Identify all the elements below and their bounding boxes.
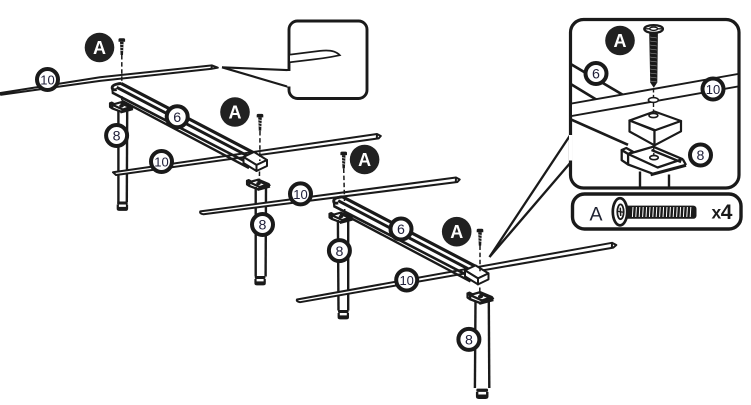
part label 8 #1 bbox=[106, 125, 127, 146]
dashed line, washer and holes in inset bbox=[648, 89, 658, 156]
svg-text:8: 8 bbox=[697, 148, 705, 164]
inset wedge pointer bbox=[490, 131, 575, 257]
svg-text:8: 8 bbox=[335, 244, 343, 260]
screw A2 with dashed line bbox=[257, 114, 264, 181]
part label 10 #2 bbox=[151, 151, 172, 172]
corner block joint 2 bbox=[244, 152, 268, 171]
part label 8 #4 bbox=[458, 329, 479, 350]
svg-text:A: A bbox=[93, 38, 106, 58]
svg-text:4: 4 bbox=[721, 201, 733, 224]
callout balloon (slat end detail) bbox=[287, 21, 367, 99]
label circle A4 bbox=[442, 217, 472, 247]
part label 10 #4 bbox=[396, 270, 417, 291]
svg-text:10: 10 bbox=[154, 155, 168, 170]
screw A4 with dashed line bbox=[477, 229, 484, 294]
slat 10 in inset bbox=[569, 74, 739, 117]
svg-text:A: A bbox=[358, 150, 371, 170]
label circle A2 bbox=[220, 97, 250, 127]
corner block joint 4 bbox=[465, 265, 489, 284]
rail 6 #1 bbox=[112, 83, 255, 168]
svg-text:6: 6 bbox=[592, 67, 600, 83]
slat 10 #4 bbox=[297, 243, 617, 302]
svg-text:6: 6 bbox=[397, 222, 405, 238]
callout wedge to balloon bbox=[222, 67, 292, 90]
slat 10 #3 bbox=[200, 178, 460, 215]
screw A3 with dashed line bbox=[340, 152, 347, 215]
label circle A inset bbox=[605, 26, 635, 56]
legend screw icon bbox=[613, 198, 697, 225]
corner block in inset bbox=[630, 112, 682, 146]
part label 8 #3 bbox=[329, 240, 350, 261]
svg-text:6: 6 bbox=[173, 110, 181, 126]
part label 10 #3 bbox=[290, 183, 311, 204]
part label 10 #1 bbox=[37, 69, 58, 90]
svg-text:A: A bbox=[614, 31, 627, 51]
svg-text:8: 8 bbox=[465, 333, 473, 349]
slat 10 #1 bbox=[1, 65, 218, 94]
part label 8 #2 bbox=[252, 214, 273, 235]
part label 6 #2 bbox=[391, 219, 412, 240]
svg-text:10: 10 bbox=[399, 273, 413, 288]
leg 8 #1 bbox=[110, 102, 133, 211]
slat 10 #2 bbox=[113, 134, 381, 175]
svg-text:10: 10 bbox=[293, 187, 307, 202]
label circle A1 bbox=[85, 33, 115, 63]
rail 6 in inset bbox=[569, 63, 628, 145]
screw A1 with dashed line bbox=[119, 38, 126, 104]
screw A in inset bbox=[644, 25, 663, 88]
bracket 8 in inset bbox=[622, 147, 686, 189]
label circle A3 bbox=[350, 145, 380, 175]
part label 10 inset bbox=[703, 79, 724, 100]
rail 6 #2 bbox=[334, 197, 477, 282]
svg-text:A: A bbox=[229, 103, 242, 123]
svg-text:A: A bbox=[450, 222, 463, 242]
part label 8 inset bbox=[690, 145, 711, 166]
detail inset frame bbox=[571, 20, 740, 189]
part label 6 inset bbox=[586, 63, 607, 84]
leg 8 #4 bbox=[468, 292, 494, 399]
svg-text:8: 8 bbox=[113, 129, 121, 145]
legend box bbox=[573, 194, 742, 229]
leg 8 #2 bbox=[247, 180, 270, 286]
svg-text:A: A bbox=[589, 204, 602, 226]
leg 8 #3 bbox=[330, 213, 353, 320]
part label 6 #1 bbox=[167, 106, 188, 127]
svg-text:10: 10 bbox=[706, 82, 720, 97]
svg-text:10: 10 bbox=[40, 73, 54, 88]
svg-text:8: 8 bbox=[259, 218, 267, 234]
